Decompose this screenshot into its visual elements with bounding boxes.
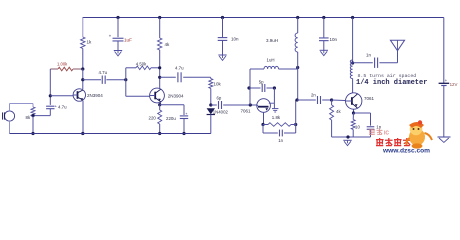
svg-text:1n: 1n [376, 125, 381, 130]
svg-text:3.9uH: 3.9uH [266, 38, 278, 43]
svg-text:10n: 10n [330, 37, 338, 42]
svg-text:IC: IC [384, 131, 389, 137]
svg-text:1k: 1k [87, 40, 93, 45]
svg-text:4.7u: 4.7u [58, 104, 67, 109]
svg-text:4.7u: 4.7u [99, 70, 108, 75]
svg-text:1uF: 1uF [124, 37, 132, 42]
svg-text:4k: 4k [165, 42, 171, 47]
svg-text:8k: 8k [26, 115, 31, 120]
svg-text:220u: 220u [166, 116, 176, 121]
svg-text:7061: 7061 [241, 109, 252, 114]
svg-text:1.8k: 1.8k [272, 115, 281, 120]
svg-text:2N3904: 2N3904 [87, 93, 103, 98]
svg-text:6p: 6p [217, 96, 222, 101]
svg-text:www.dzsc.com: www.dzsc.com [382, 147, 430, 154]
svg-text:5p: 5p [259, 79, 264, 84]
svg-text:2N3904: 2N3904 [168, 94, 184, 99]
svg-text:+: + [445, 78, 448, 83]
svg-text:1/4 inch diameter: 1/4 inch diameter [356, 79, 427, 87]
svg-text:220: 220 [149, 115, 157, 120]
svg-text:4.7u: 4.7u [175, 65, 184, 70]
svg-text:1.00k: 1.00k [57, 62, 68, 67]
svg-text:10n: 10n [231, 37, 239, 42]
svg-text:7061: 7061 [364, 96, 375, 101]
svg-text:1n: 1n [278, 138, 283, 143]
svg-text:4.50k: 4.50k [136, 61, 147, 66]
svg-text:10k: 10k [214, 82, 222, 87]
svg-text:1n: 1n [366, 53, 371, 58]
svg-text:1uH: 1uH [267, 58, 275, 63]
svg-text:4k: 4k [336, 109, 341, 114]
svg-text:8.5 turns air spaced: 8.5 turns air spaced [358, 73, 417, 79]
svg-text:2n: 2n [311, 92, 316, 97]
svg-text:10: 10 [355, 124, 360, 129]
svg-text:1N4002: 1N4002 [213, 110, 229, 115]
svg-text:12V: 12V [450, 82, 458, 87]
